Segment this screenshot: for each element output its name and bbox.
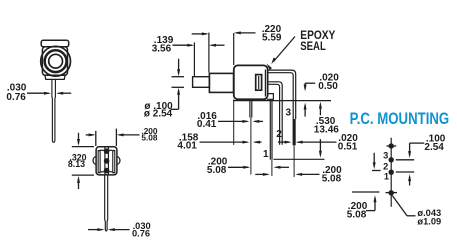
svg-text:3.56: 3.56 xyxy=(152,43,172,54)
pc pattern hole3 cross tick xyxy=(387,145,397,147)
epoxy seal window xyxy=(256,75,262,91)
svg-text:2: 2 xyxy=(383,161,388,171)
svg-text:1: 1 xyxy=(263,149,269,160)
epoxy seal corner blob xyxy=(267,64,273,70)
dimension .030/0.76 front pin arrows xyxy=(27,92,49,94)
dimension extension line tip face xyxy=(193,42,195,76)
support pin extension xyxy=(250,118,252,175)
seating plane line xyxy=(233,100,331,102)
epoxy seal leader xyxy=(274,37,296,62)
central view plunger tip xyxy=(193,77,210,88)
svg-text:4.01: 4.01 xyxy=(177,140,197,151)
side view pin xyxy=(105,175,108,231)
dimension .320/8.13 extension ticks xyxy=(72,146,94,148)
dimension .158 line xyxy=(200,141,248,143)
terminal 3 extension xyxy=(293,145,295,177)
pc pattern left arrow hole1 xyxy=(373,153,375,167)
pc pattern hole 1 xyxy=(389,170,394,175)
dimension .200/5.08 pc arrow xyxy=(374,198,376,211)
dimension .220 arrows xyxy=(192,33,207,35)
svg-text:0.50: 0.50 xyxy=(318,81,338,92)
svg-text:5.08: 5.08 xyxy=(207,165,227,176)
pc pattern right ticks xyxy=(396,159,414,161)
dimension .020/0.51 arrows xyxy=(278,141,289,143)
support pin xyxy=(249,99,251,117)
pc pattern centerline xyxy=(390,138,392,207)
dimension .530 upper arrow xyxy=(319,104,321,115)
central view plunger shaft xyxy=(209,73,233,92)
side view right contact bar xyxy=(112,150,115,173)
svg-text:5.08: 5.08 xyxy=(347,209,367,220)
front view cap xyxy=(41,40,68,46)
terminal 3 thick pin xyxy=(293,119,296,145)
svg-text:0.41: 0.41 xyxy=(197,119,217,130)
front view bushing outer circle xyxy=(41,46,71,76)
side view interior top line xyxy=(100,149,112,151)
svg-text:3: 3 xyxy=(286,108,292,119)
side view terminal dots xyxy=(104,148,110,154)
svg-text:2: 2 xyxy=(276,129,282,140)
svg-text:P.C. MOUNTING: P.C. MOUNTING xyxy=(350,109,450,128)
side view interior bottom line xyxy=(100,171,112,173)
svg-text:SEAL: SEAL xyxy=(300,39,326,53)
pc pattern hole 2 xyxy=(389,157,394,162)
dia .043 leader xyxy=(392,196,407,216)
dimension dia .100 arrows xyxy=(178,59,180,74)
svg-text:0.76: 0.76 xyxy=(6,92,26,103)
dimension extension line tip base xyxy=(208,33,210,73)
svg-text:8.13: 8.13 xyxy=(68,159,85,169)
side view right bump xyxy=(117,156,120,164)
svg-text:5.59: 5.59 xyxy=(262,32,282,43)
side view body xyxy=(96,147,117,175)
central view body xyxy=(234,65,268,99)
terminal 2 hook xyxy=(268,82,283,145)
pc pattern left tick hole1 xyxy=(372,170,381,172)
svg-text:2.54: 2.54 xyxy=(424,142,444,153)
svg-text:1: 1 xyxy=(384,171,389,181)
terminal 1 pin xyxy=(269,99,271,159)
dimension extension body face below xyxy=(233,100,235,146)
side view left contact bar xyxy=(98,150,101,173)
front view bushing ring xyxy=(45,50,67,72)
dimension .200/5.08 side body extension lines xyxy=(95,131,97,146)
dimension dia .100 extension ticks xyxy=(172,76,185,78)
side view left bump xyxy=(93,156,96,164)
svg-text:3: 3 xyxy=(383,150,388,160)
dimension .200 lower left line xyxy=(228,166,248,168)
terminal 1 extension xyxy=(271,160,273,176)
dimension .200/5.08 side arrows xyxy=(86,134,94,136)
dimension .020/0.50 bracket xyxy=(305,82,315,84)
svg-text:5.08: 5.08 xyxy=(322,174,342,185)
seating plane up arrow xyxy=(304,105,306,117)
pc pattern mounting hole cross tick xyxy=(386,192,398,194)
terminal 3 hook xyxy=(268,70,296,119)
dimension .100/2.54 lower arrow xyxy=(409,177,411,186)
front view base xyxy=(45,75,65,79)
svg-text:ø1.09: ø1.09 xyxy=(417,217,441,227)
pc pattern mounting hole xyxy=(389,190,394,195)
svg-text:0.51: 0.51 xyxy=(338,141,358,152)
svg-text:5.08: 5.08 xyxy=(141,132,158,142)
front view terminal pin xyxy=(52,79,56,142)
pc pattern left tick mounting hole xyxy=(352,191,379,193)
svg-text:ø 2.54: ø 2.54 xyxy=(144,108,173,119)
pc pattern hole 3 xyxy=(389,143,394,148)
front view button circle xyxy=(49,54,63,68)
dimension .016 leader xyxy=(218,120,247,122)
dimension .320/8.13 arrows xyxy=(78,133,80,144)
dimension .139 arrows xyxy=(173,44,193,46)
side view center channel xyxy=(104,148,106,175)
dimension .530 lower arrow xyxy=(319,139,321,155)
terminal 1 boss xyxy=(267,94,274,100)
dimension .030/0.76 side pin arrows xyxy=(88,229,102,231)
svg-text:0.76: 0.76 xyxy=(132,229,150,239)
dimension .200 lower right line xyxy=(255,173,267,175)
dimension .100/2.54 bracket xyxy=(410,142,425,144)
svg-text:13.46: 13.46 xyxy=(314,125,339,136)
front view body xyxy=(42,47,67,76)
central view body inner wall xyxy=(264,70,266,97)
dimension extension line body face xyxy=(233,33,235,65)
dimension .530 pin bottom extension xyxy=(274,158,325,160)
